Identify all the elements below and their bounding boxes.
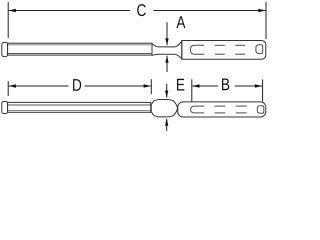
top tube bore C-shape (hidden line): [190, 45, 204, 54]
dimension C right arrowhead: [258, 9, 265, 13]
top stud: rod thread line upper: [8, 44, 152, 46]
bottom tube bore end cap: [257, 106, 264, 114]
bottom tube body: [178, 102, 266, 117]
top stud: swage neck: [152, 41, 182, 47]
dimension C line left segment: [9, 10, 130, 12]
bottom tube bore dash pair 1: [215, 105, 226, 107]
label D: [73, 79, 81, 91]
top tube left junction line: [181, 41, 183, 60]
dimension D line left segment: [9, 85, 69, 87]
dimension D right arrowhead: [144, 84, 151, 88]
dimension E down arrow: [166, 84, 168, 98]
top tube bore dash pair 1: [215, 44, 225, 46]
dimension C extension line right: [265, 2, 267, 39]
dimension D extension line left: [7, 81, 9, 96]
bottom tube bore C-shape (hidden line): [191, 106, 204, 113]
dimension B right arrowhead: [255, 84, 262, 88]
label C: [137, 4, 146, 16]
bottom stud: rod thread line lower: [8, 110, 151, 112]
top stud: left end cap: [2, 42, 8, 56]
dimension C extension line left: [7, 2, 9, 38]
dimension D line right segment: [85, 85, 151, 87]
bottom stud: ball: [151, 100, 177, 117]
top tube body: [182, 41, 266, 60]
dimension C line right segment: [154, 10, 266, 12]
dimension B extension line left: [191, 79, 193, 101]
top tube bore end cap: [256, 45, 263, 54]
label B: [222, 79, 229, 91]
top tube bore dash pair 2: [235, 44, 245, 46]
bottom stud: left end cap: [2, 101, 8, 113]
label A: [176, 16, 185, 28]
dimension B extension line right: [262, 80, 264, 102]
bottom tube bore dash pair 2: [236, 105, 247, 107]
dimension B line right segment: [235, 85, 262, 87]
dimension A up arrow: [166, 56, 168, 72]
dimension B line left segment: [192, 85, 218, 87]
bottom stud: rod body: [8, 102, 151, 112]
dimension D left arrowhead: [9, 84, 16, 88]
dimension E up arrow: [166, 119, 168, 131]
top stud: rod body: [8, 43, 152, 55]
dimension D extension line right: [150, 79, 152, 94]
dimension B left arrowhead: [192, 84, 199, 88]
label E: [177, 79, 184, 91]
top stud: rod thread line lower: [8, 53, 152, 55]
dimension C left arrowhead: [9, 9, 16, 13]
dimension A down arrow: [166, 22, 168, 45]
bottom stud: rod thread line upper: [8, 104, 151, 106]
